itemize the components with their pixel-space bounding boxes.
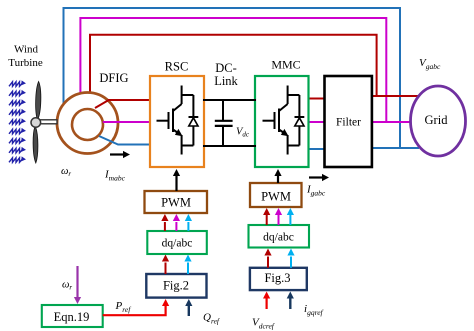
svg-text:PWM: PWM	[261, 190, 291, 204]
svg-text:dq/abc: dq/abc	[162, 238, 193, 250]
svg-text:Filter: Filter	[336, 117, 361, 129]
svg-text:DC-: DC-	[215, 61, 237, 75]
svg-text:Turbine: Turbine	[8, 57, 43, 69]
svg-text:Wind: Wind	[14, 44, 38, 56]
svg-text:PWM: PWM	[161, 196, 191, 210]
svg-text:MMC: MMC	[271, 58, 300, 72]
svg-text:Grid: Grid	[425, 113, 449, 127]
svg-text:Link: Link	[214, 74, 238, 88]
svg-text:Fig.2: Fig.2	[163, 279, 189, 293]
svg-text:RSC: RSC	[165, 60, 189, 74]
svg-text:Fig.3: Fig.3	[264, 271, 290, 285]
svg-text:dq/abc: dq/abc	[263, 232, 294, 244]
svg-text:DFIG: DFIG	[99, 71, 128, 85]
svg-text:Eqn.19: Eqn.19	[54, 310, 90, 324]
